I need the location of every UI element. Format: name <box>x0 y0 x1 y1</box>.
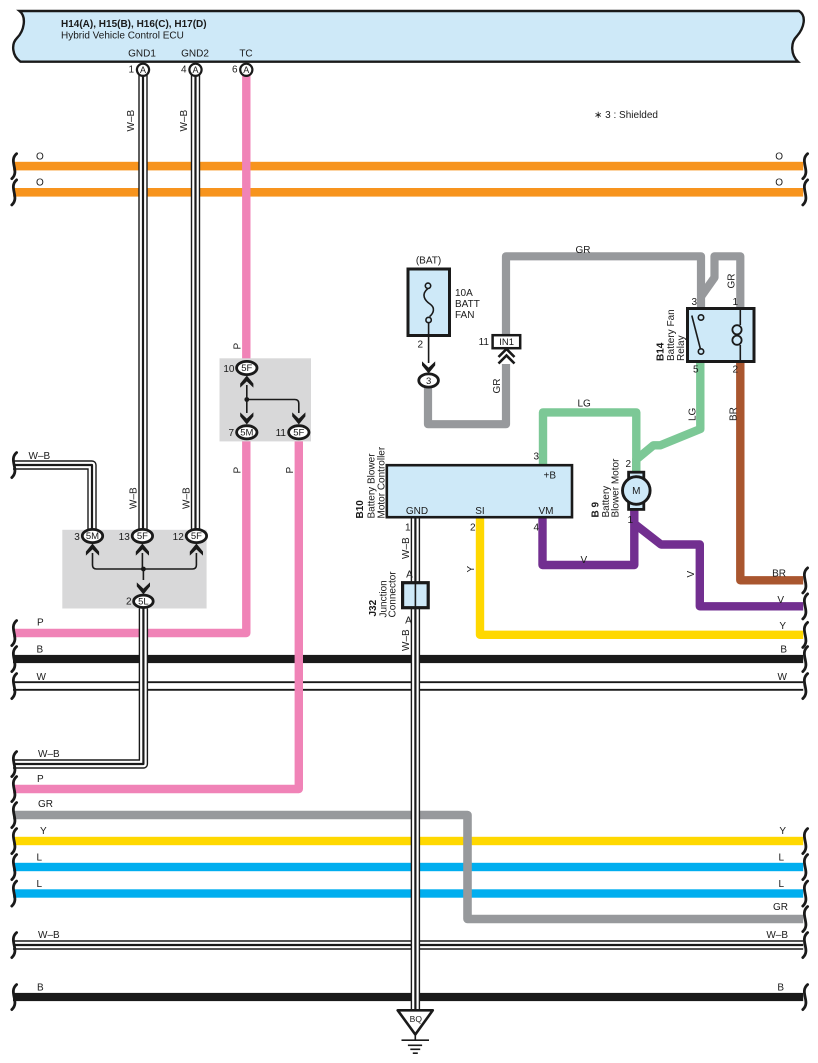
svg-text:GR: GR <box>492 379 503 394</box>
svg-text:∗ 3 : Shielded: ∗ 3 : Shielded <box>594 110 658 121</box>
svg-text:Relay: Relay <box>676 335 687 361</box>
wire B (black bus 1) <box>13 655 803 663</box>
wire break, O bus 1 left <box>12 154 17 179</box>
svg-text:W–B: W–B <box>29 451 51 462</box>
connector 5M pin7 <box>237 426 257 439</box>
svg-text:A: A <box>243 65 249 75</box>
wire V (VM to motor pin 1) <box>543 508 635 565</box>
wire break, L bus 2 right <box>803 881 808 906</box>
svg-text:5M: 5M <box>240 428 253 439</box>
wire GR (gray bus with jog) <box>13 815 803 919</box>
wire break, W-B branch left <box>12 453 17 478</box>
wire break, GR bus left <box>12 803 17 828</box>
svg-text:BR: BR <box>772 569 786 580</box>
svg-text:7: 7 <box>228 428 234 439</box>
wire GR (relay pin 1 jog) <box>702 256 741 310</box>
svg-text:B: B <box>780 645 787 656</box>
node dot <box>141 567 146 572</box>
svg-text:W: W <box>778 672 788 683</box>
wire break, W bus left <box>12 674 17 699</box>
wire break, P bus 1 left <box>12 621 17 646</box>
svg-text:1: 1 <box>405 523 411 534</box>
svg-text:LG: LG <box>578 399 592 410</box>
wire Y (SI to right edge) <box>480 515 803 635</box>
wire L (blue bus 2) <box>13 889 803 897</box>
wire (junction link) <box>247 385 299 413</box>
svg-text:4: 4 <box>181 65 187 76</box>
wire break, B bus 2 right <box>803 985 808 1010</box>
svg-text:L: L <box>37 853 43 864</box>
svg-text:12: 12 <box>173 532 185 543</box>
connector 5F pin13 <box>132 529 152 542</box>
svg-text:LG: LG <box>688 407 699 421</box>
wire O (orange bus 1) <box>13 162 803 171</box>
arrow up into 5F pin13 <box>136 544 149 556</box>
svg-text:11: 11 <box>276 428 287 439</box>
svg-text:GND: GND <box>406 506 428 517</box>
svg-text:H14(A), H15(B), H16(C), H17(D): H14(A), H15(B), H16(C), H17(D) <box>61 19 207 30</box>
svg-text:3: 3 <box>426 376 431 387</box>
wire break, O bus 2 left <box>12 180 17 205</box>
svg-text:5F: 5F <box>137 531 148 542</box>
svg-text:W–B: W–B <box>126 110 137 132</box>
connector 5F pin12 <box>186 529 206 542</box>
svg-text:O: O <box>775 178 783 189</box>
wire break, O bus 2 right <box>803 180 808 205</box>
svg-text:2: 2 <box>625 459 631 470</box>
wire P (pink bus 2 to connector 5F pin11) <box>13 437 299 789</box>
svg-text:10A: 10A <box>455 288 473 299</box>
junction block (lower gray box) <box>62 530 206 609</box>
controller B10 Battery Blower Motor Controller <box>387 465 572 517</box>
svg-text:O: O <box>36 178 44 189</box>
svg-text:Connector: Connector <box>388 571 399 618</box>
wire W-B (from 5L pin2 down and left) <box>13 605 143 764</box>
motor B9 Battery Blower Motor <box>629 472 644 479</box>
svg-text:Y: Y <box>40 826 47 837</box>
pin 1 A of ECU <box>137 64 149 76</box>
svg-text:W–B: W–B <box>38 930 60 941</box>
svg-text:O: O <box>775 152 783 163</box>
wire break, L bus 2 left <box>12 881 17 906</box>
svg-text:TC: TC <box>239 49 252 60</box>
wire break, W bus right <box>803 674 808 699</box>
svg-text:10: 10 <box>223 364 235 375</box>
wire V (motor pin 1 to right edge) <box>636 525 803 606</box>
relay switch contacts <box>692 316 701 349</box>
svg-text:BATT: BATT <box>455 299 480 310</box>
svg-text:5: 5 <box>693 365 699 376</box>
svg-text:B: B <box>777 983 784 994</box>
svg-text:GR: GR <box>727 274 738 289</box>
svg-text:L: L <box>37 879 43 890</box>
ground BQ <box>398 1010 433 1034</box>
connector IN1 pin 11 <box>493 335 521 348</box>
wire W-B (GND2 to 5F pin12) <box>191 75 200 531</box>
svg-text:V: V <box>777 595 784 606</box>
wire break, W-B from 5L left <box>12 752 17 777</box>
wire break, Y wire from SI right <box>803 622 808 647</box>
wire W (white bus) <box>13 681 803 690</box>
svg-text:V: V <box>581 555 588 566</box>
svg-text:GND1: GND1 <box>128 49 156 60</box>
svg-text:1: 1 <box>128 65 134 76</box>
svg-text:B14: B14 <box>656 342 667 361</box>
wire break, L bus 1 left <box>12 855 17 880</box>
chevron marker below IN1 <box>499 349 515 364</box>
svg-text:5F: 5F <box>241 363 252 374</box>
svg-text:Y: Y <box>779 621 786 632</box>
wire W-B (white-black bus) <box>13 940 803 950</box>
wire break, W-B bus left <box>12 933 17 958</box>
arrow up into 5F pin12 <box>190 544 203 556</box>
svg-text:Hybrid Vehicle Control ECU: Hybrid Vehicle Control ECU <box>61 31 184 42</box>
svg-text:11: 11 <box>479 337 490 348</box>
svg-text:2: 2 <box>470 523 476 534</box>
svg-text:W–B: W–B <box>129 487 140 509</box>
wire L (blue bus 1) <box>13 863 803 871</box>
svg-text:B: B <box>37 645 44 656</box>
svg-text:W–B: W–B <box>38 749 60 760</box>
arrow into terminal 3 <box>422 361 435 373</box>
svg-text:3: 3 <box>74 532 80 543</box>
svg-text:J32: J32 <box>368 599 379 616</box>
svg-text:W–B: W–B <box>182 487 193 509</box>
svg-text:W–B: W–B <box>179 110 190 132</box>
wire break, B bus 1 left <box>12 647 17 672</box>
wire GR (IN1 up and to relay pin 3) <box>506 256 701 335</box>
svg-text:A: A <box>192 65 198 75</box>
svg-text:P: P <box>285 467 296 474</box>
wire break, O bus 1 right <box>803 154 808 179</box>
wire LG (+B to motor branch) <box>543 412 636 472</box>
ECU H14/H15/H16/H17 Hybrid Vehicle Control ECU <box>13 11 804 62</box>
svg-text:BR: BR <box>729 407 740 421</box>
wire break, Y bus left <box>12 829 17 854</box>
svg-text:BQ: BQ <box>410 1014 423 1024</box>
wire Y (yellow bus) <box>13 837 803 845</box>
svg-text:B 9: B 9 <box>591 502 602 518</box>
wire break, L bus 1 right <box>803 855 808 880</box>
svg-text:O: O <box>36 152 44 163</box>
arrow down into 5L pin2 <box>137 582 150 594</box>
connector 5F pin11 <box>289 426 309 439</box>
svg-text:5F: 5F <box>191 531 202 542</box>
svg-text:B10: B10 <box>355 500 366 519</box>
svg-text:M: M <box>632 486 640 497</box>
arrow up into 5F pin10 <box>240 376 253 388</box>
svg-text:3: 3 <box>533 452 539 463</box>
svg-text:Y: Y <box>779 826 786 837</box>
svg-text:1: 1 <box>627 515 633 526</box>
connector 5L pin2 <box>134 595 154 607</box>
svg-text:1: 1 <box>732 297 738 308</box>
svg-text:5F: 5F <box>293 428 304 439</box>
svg-text:3: 3 <box>691 297 697 308</box>
relay coil <box>739 310 741 325</box>
wire break, P bus 2 left <box>12 777 17 802</box>
svg-text:Y: Y <box>466 566 477 573</box>
arrow down into 5M pin7 <box>240 412 253 424</box>
svg-text:A: A <box>406 570 413 581</box>
wire W-B (GND1 to 5F pin13) <box>138 75 147 531</box>
svg-text:4: 4 <box>533 523 539 534</box>
svg-text:B: B <box>37 983 44 994</box>
wire O (orange bus 2) <box>13 188 803 197</box>
arrow up into 5M pin3 <box>86 544 99 556</box>
wire LG (relay pin 5 to motor pin 2) <box>636 360 700 472</box>
wire break, Y bus right <box>803 829 808 854</box>
svg-text:FAN: FAN <box>455 310 474 321</box>
fuse 10A BATT FAN <box>408 269 450 336</box>
svg-text:VM: VM <box>539 506 554 517</box>
svg-text:W–B: W–B <box>401 537 412 559</box>
wire W-B (B10 GND through J32 to ground BQ) <box>411 515 420 1011</box>
wire (junction links) <box>93 553 197 569</box>
wire break, W-B bus right <box>803 933 808 958</box>
svg-text:SI: SI <box>475 506 484 517</box>
wire break, B bus 2 left <box>12 985 17 1010</box>
wire P (pink bus 1 to connector 5M pin7) <box>13 437 246 633</box>
svg-text:A: A <box>140 65 146 75</box>
svg-text:+B: +B <box>543 471 556 482</box>
svg-text:L: L <box>778 853 784 864</box>
wire GR (fuse terminal 3 to IN1) <box>428 364 506 424</box>
wire break, BR wire right <box>803 568 808 593</box>
svg-text:P: P <box>37 774 44 785</box>
svg-text:5M: 5M <box>86 531 99 542</box>
svg-text:W–B: W–B <box>766 930 788 941</box>
arrow down into 5F pin11 <box>292 412 305 424</box>
svg-text:Blower Motor: Blower Motor <box>611 458 622 518</box>
svg-text:6: 6 <box>232 65 238 76</box>
svg-text:V: V <box>686 571 697 578</box>
svg-text:L: L <box>778 879 784 890</box>
svg-text:(BAT): (BAT) <box>416 256 441 267</box>
wire break, V wire right <box>803 594 808 619</box>
relay B14 Battery Fan Relay <box>688 309 755 362</box>
svg-text:P: P <box>233 343 244 350</box>
svg-text:13: 13 <box>119 532 131 543</box>
node dot <box>244 397 249 402</box>
wire BR (relay pin 2 to right edge) <box>740 360 803 580</box>
svg-text:GR: GR <box>38 799 53 810</box>
connector 5F pin10 <box>237 361 257 374</box>
svg-text:2: 2 <box>732 365 738 376</box>
wire P (TC to 5F pin10) <box>242 75 250 363</box>
svg-text:5L: 5L <box>138 597 149 608</box>
svg-text:2: 2 <box>126 597 132 608</box>
svg-text:GR: GR <box>773 902 788 913</box>
svg-text:P: P <box>37 618 44 629</box>
node 3 oval <box>419 374 439 387</box>
connector 5M pin3 <box>82 529 102 542</box>
wire B (black bus 2) <box>13 993 803 1001</box>
svg-text:A: A <box>405 616 412 627</box>
svg-text:GND2: GND2 <box>181 49 209 60</box>
svg-text:Motor Controller: Motor Controller <box>377 446 388 518</box>
pin 6 A of ECU <box>240 64 252 76</box>
svg-text:IN1: IN1 <box>499 337 514 348</box>
svg-text:GR: GR <box>576 245 591 256</box>
wire W-B (left branch to 5M pin3) <box>13 465 92 530</box>
wire break, GR bus right <box>803 907 808 932</box>
svg-text:W: W <box>37 672 47 683</box>
wire break, B bus 1 right <box>803 647 808 672</box>
svg-text:P: P <box>233 467 244 474</box>
pin 4 A of ECU <box>189 64 201 76</box>
svg-text:W–B: W–B <box>401 629 412 651</box>
junction block (upper gray box) <box>220 358 312 441</box>
wire (fuse pin 2 lead) <box>428 323 430 363</box>
junction connector J32 <box>403 583 429 608</box>
svg-text:2: 2 <box>417 340 423 351</box>
